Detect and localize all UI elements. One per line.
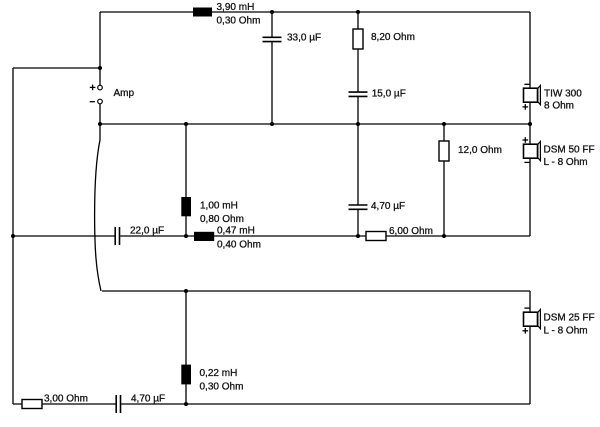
- svg-text:3,90 mH: 3,90 mH: [217, 2, 255, 13]
- svg-text:0,30 Ohm: 0,30 Ohm: [200, 381, 244, 392]
- svg-text:8,20 Ohm: 8,20 Ohm: [371, 32, 415, 43]
- svg-text:6,00 Ohm: 6,00 Ohm: [389, 226, 433, 237]
- svg-text:L - 8 Ohm: L - 8 Ohm: [544, 326, 588, 337]
- svg-text:DSM 50 FF: DSM 50 FF: [544, 145, 595, 156]
- svg-text:4,70 µF: 4,70 µF: [131, 394, 165, 405]
- svg-text:0,47 mH: 0,47 mH: [217, 226, 255, 237]
- svg-text:4,70 µF: 4,70 µF: [371, 201, 405, 212]
- svg-text:0,22 mH: 0,22 mH: [200, 368, 238, 379]
- svg-text:33,0 µF: 33,0 µF: [287, 33, 321, 44]
- svg-text:1,00 mH: 1,00 mH: [200, 201, 238, 212]
- svg-text:DSM 25 FF: DSM 25 FF: [544, 313, 595, 324]
- svg-text:8 Ohm: 8 Ohm: [544, 101, 574, 112]
- svg-text:L - 8 Ohm: L - 8 Ohm: [544, 157, 588, 168]
- svg-text:3,00 Ohm: 3,00 Ohm: [44, 394, 88, 405]
- svg-text:0,40 Ohm: 0,40 Ohm: [217, 240, 261, 251]
- svg-text:0,80 Ohm: 0,80 Ohm: [200, 214, 244, 225]
- svg-text:TIW 300: TIW 300: [544, 89, 582, 100]
- svg-text:0,30 Ohm: 0,30 Ohm: [217, 16, 261, 27]
- svg-text:22,0 µF: 22,0 µF: [130, 226, 164, 237]
- svg-text:15,0 µF: 15,0 µF: [372, 89, 406, 100]
- svg-text:12,0 Ohm: 12,0 Ohm: [458, 145, 502, 156]
- svg-text:Amp: Amp: [114, 88, 135, 99]
